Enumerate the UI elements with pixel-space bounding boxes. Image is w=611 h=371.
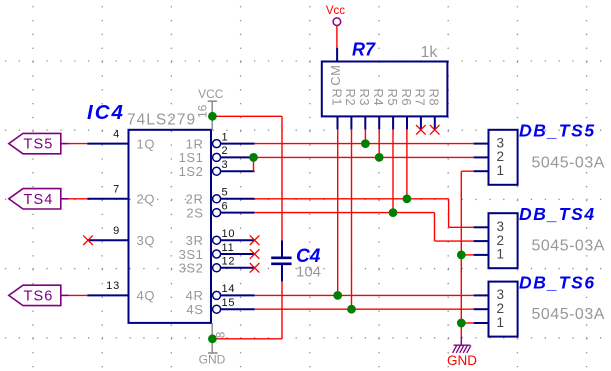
connector DB_TS4 body	[489, 213, 518, 268]
IC4 right pin 14 (4R) with inversion bubble	[186, 283, 255, 303]
junction dot GND / DB_TS6 pin1	[457, 319, 466, 328]
net label flag TS4	[9, 189, 69, 209]
svg-text:4S: 4S	[186, 302, 203, 317]
svg-text:10: 10	[222, 228, 236, 240]
junction dot net 1S at IC pin2	[249, 153, 258, 162]
no-connect X on IC pin 10	[250, 235, 260, 245]
svg-text:5045-03A: 5045-03A	[532, 238, 605, 255]
R7 pin R7	[413, 89, 428, 130]
svg-text:R7: R7	[413, 89, 428, 107]
svg-text:2S: 2S	[186, 205, 203, 220]
svg-text:74LS279: 74LS279	[127, 112, 196, 129]
svg-text:7: 7	[113, 184, 120, 196]
R7 pin R4	[371, 89, 386, 130]
wire R7 pin R6 drop to net 2R	[406, 129, 408, 198]
IC4 right pin 6 (2S) with inversion bubble	[186, 200, 254, 220]
IC4 right pin 12 (3S2) with inversion bubble	[179, 256, 255, 276]
no-connect X on R7 pin R7	[416, 125, 426, 135]
IC4 pin 8 GND power pin (gray)	[199, 323, 228, 367]
svg-text:4R: 4R	[186, 288, 204, 303]
svg-text:3: 3	[222, 159, 229, 171]
svg-text:4: 4	[113, 128, 120, 140]
IC4 right pin 5 (2R) with inversion bubble	[186, 187, 255, 207]
wire GND column to DB_TS4 pin1	[461, 254, 473, 256]
wire net TS6 flag to IC pin13	[69, 294, 88, 296]
IC U IC4 74LS279 body	[129, 130, 212, 323]
connector DB_TS4 value label 5045-03A	[532, 238, 605, 255]
connector DB_TS5 body	[489, 130, 518, 185]
connector DB_TS5 reference label	[519, 121, 596, 141]
IC4 left pin 13 (4Q)	[87, 280, 155, 303]
wire R7 pin R2 drop to net 4S	[351, 129, 353, 309]
wire net 1S: tie IC pin2 to pin3	[254, 157, 255, 171]
R7 pin R1	[329, 89, 344, 130]
IC4 right pin 11 (3S1) with inversion bubble	[179, 242, 255, 262]
junction dot net 4S / R2	[347, 305, 356, 314]
svg-text:R6: R6	[399, 89, 414, 107]
connector DB_TS6 reference label	[519, 272, 596, 292]
IC4 left pin 7 (2Q)	[87, 184, 155, 207]
wire net 2S: IC pin6 to DB_TS4 pin2	[255, 213, 474, 242]
connector DB_TS5 pin 3	[474, 135, 504, 150]
capacitor C4	[271, 241, 291, 282]
svg-text:R8: R8	[427, 89, 442, 107]
connector DB_TS4 pin 1	[474, 247, 504, 262]
no-connect X on IC pin 12	[250, 263, 260, 273]
IC4 left pin 9 (3Q)	[87, 225, 155, 248]
net label flag TS5	[9, 133, 69, 153]
IC4 right pin 3 (1S2) with inversion bubble	[179, 159, 255, 179]
R7 pin R2	[343, 89, 358, 130]
svg-text:VCC: VCC	[198, 87, 224, 101]
junction dot GND at IC pin8	[208, 334, 217, 343]
svg-text:R2: R2	[343, 89, 358, 107]
svg-text:DB_TS6: DB_TS6	[519, 272, 596, 292]
connector DB_TS4 pin 2	[474, 233, 504, 248]
svg-text:1S1: 1S1	[179, 150, 204, 165]
svg-text:5045-03A: 5045-03A	[532, 306, 605, 323]
wire R7 pin R5 drop to net 2S	[392, 129, 394, 212]
IC4 right pin 15 (4S) with inversion bubble	[186, 297, 254, 317]
wire GND column: DB_TS5 pin1 down to earth symbol	[461, 171, 473, 336]
R7 pin R8	[427, 89, 442, 130]
junction dot GND / DB_TS4 pin1	[457, 251, 466, 260]
connector DB_TS4 pin 3	[474, 219, 504, 234]
wire net 1S: IC pin2 to DB_TS5 pin2 row	[254, 156, 474, 158]
svg-text:12: 12	[222, 256, 236, 268]
junction dot net 4R / R1	[333, 291, 342, 300]
svg-text:2: 2	[497, 233, 505, 248]
no-connect X on IC pin 9	[83, 235, 93, 245]
svg-text:R4: R4	[371, 89, 386, 107]
svg-text:3S1: 3S1	[179, 247, 204, 262]
wire net 2R: IC pin5 to DB_TS4 pin3	[255, 199, 474, 228]
wire net TS5 flag to IC pin4	[69, 143, 88, 145]
svg-text:DB_TS5: DB_TS5	[519, 121, 596, 141]
svg-text:2Q: 2Q	[137, 192, 156, 207]
wire R7 pin R1 drop to net 4R	[337, 129, 339, 295]
IC4 right pin 10 (3R) with inversion bubble	[186, 228, 255, 248]
svg-text:TS5: TS5	[24, 137, 54, 153]
svg-text:9: 9	[113, 225, 120, 237]
svg-text:TS4: TS4	[24, 192, 54, 208]
IC4 left pin 4 (1Q)	[87, 128, 155, 151]
resistor network R7 body	[322, 62, 448, 117]
R7 common pin CM (top)	[328, 48, 343, 86]
svg-text:1k: 1k	[421, 44, 439, 61]
connector DB_TS6 pin 1	[474, 315, 504, 330]
wire net 4R: IC pin14 to DB_TS6 pin3 row	[255, 294, 474, 296]
IC4 reference designator label	[87, 101, 125, 124]
connector DB_TS4 reference label	[519, 204, 596, 224]
svg-text:IC4: IC4	[87, 101, 125, 124]
svg-text:6: 6	[222, 200, 229, 212]
svg-text:5045-03A: 5045-03A	[532, 154, 605, 171]
svg-text:5: 5	[222, 187, 229, 199]
svg-text:1Q: 1Q	[137, 136, 156, 151]
svg-text:3R: 3R	[186, 233, 204, 248]
wire net 1R: IC pin1 to DB_TS5 pin3 row	[255, 143, 474, 145]
IC4 pin 16 VCC power pin (gray)	[196, 87, 224, 130]
no-connect X on R7 pin R8	[430, 125, 440, 135]
connector DB_TS6 pin 2	[474, 301, 504, 316]
R7 reference designator label	[352, 40, 376, 60]
svg-text:13: 13	[106, 280, 120, 292]
junction dot net 2S / R5	[389, 208, 398, 217]
svg-text:R5: R5	[385, 89, 400, 107]
svg-text:11: 11	[222, 242, 235, 254]
R7 pin R3	[357, 89, 372, 130]
svg-text:104: 104	[296, 264, 321, 281]
junction dot net 2R / R6	[403, 194, 412, 203]
svg-text:14: 14	[222, 283, 236, 295]
junction dot net 1S / R4	[375, 153, 384, 162]
wire R7 pin R3 drop to net 1R	[364, 129, 366, 143]
svg-text:GND: GND	[199, 353, 226, 367]
no-connect X on IC pin 11	[250, 249, 260, 259]
svg-text:1: 1	[497, 163, 505, 178]
svg-text:2: 2	[222, 145, 229, 157]
net label flag TS6	[9, 285, 69, 305]
wire GND column to DB_TS6 pin1	[461, 322, 473, 324]
connector DB_TS6 pin 3	[474, 287, 504, 302]
IC4 right pin 1 (1R) with inversion bubble	[186, 131, 255, 151]
wire GND: C4 bottom to IC pin8 junction	[212, 281, 282, 338]
junction dot VCC at IC pin16	[208, 112, 217, 121]
svg-text:2R: 2R	[186, 192, 204, 207]
wire net TS4 flag to IC pin7	[69, 198, 88, 200]
svg-text:4Q: 4Q	[137, 288, 156, 303]
C4 reference designator label	[296, 246, 321, 267]
svg-text:1: 1	[497, 247, 505, 262]
connector DB_TS5 pin 1	[474, 163, 504, 178]
wire R7 pin R4 drop to net 1S	[378, 129, 380, 157]
svg-text:R1: R1	[329, 89, 344, 107]
junction dot net 1R / R3	[361, 139, 370, 148]
C4 value label 104	[296, 264, 321, 281]
wire Vcc port to R7 CM pin	[336, 26, 338, 48]
svg-text:DB_TS4: DB_TS4	[519, 204, 596, 224]
svg-text:GND: GND	[447, 353, 477, 368]
svg-text:16: 16	[196, 104, 210, 118]
svg-text:2: 2	[497, 149, 505, 164]
power port Vcc (top)	[326, 5, 345, 25]
svg-text:3S2: 3S2	[179, 261, 204, 276]
ground symbol GND (earth, bottom right)	[447, 337, 477, 369]
wire VCC: IC pin16 junction to C4 column	[212, 116, 282, 240]
svg-text:1: 1	[497, 315, 505, 330]
wire net 4S: IC pin15 to DB_TS6 pin2 row	[255, 308, 474, 310]
svg-text:1: 1	[222, 131, 229, 143]
IC4 right pin 2 (1S1) with inversion bubble	[179, 145, 255, 165]
R7 pin R6	[399, 89, 414, 130]
svg-text:3: 3	[497, 135, 505, 150]
connector DB_TS5 pin 2	[474, 149, 504, 164]
IC4 value label 74LS279	[127, 112, 196, 129]
svg-text:15: 15	[222, 297, 236, 309]
connector DB_TS6 value label 5045-03A	[532, 306, 605, 323]
svg-text:3: 3	[497, 287, 505, 302]
svg-text:TS6: TS6	[24, 288, 54, 304]
svg-text:2: 2	[497, 301, 505, 316]
svg-text:1R: 1R	[186, 136, 204, 151]
connector DB_TS5 value label 5045-03A	[532, 154, 605, 171]
svg-text:Vcc: Vcc	[326, 5, 345, 17]
svg-text:R3: R3	[357, 89, 372, 107]
svg-text:3: 3	[497, 219, 505, 234]
R7 value label 1k	[421, 44, 439, 61]
svg-text:CM: CM	[328, 65, 343, 86]
svg-text:1S2: 1S2	[179, 164, 204, 179]
svg-text:R7: R7	[352, 40, 376, 60]
connector DB_TS6 body	[489, 282, 518, 337]
svg-text:3Q: 3Q	[137, 233, 156, 248]
R7 pin R5	[385, 89, 400, 130]
